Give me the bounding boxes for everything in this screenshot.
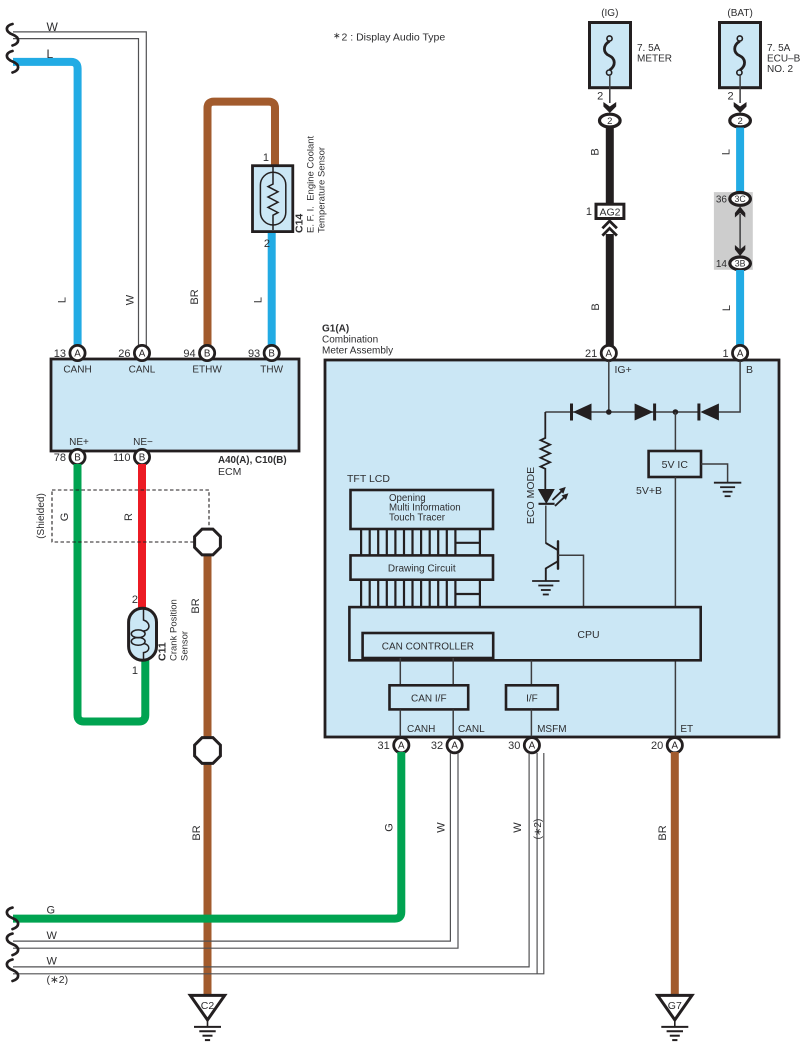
svg-text:78: 78 bbox=[54, 452, 66, 464]
svg-text:2: 2 bbox=[264, 238, 270, 250]
svg-text:ECO MODE: ECO MODE bbox=[525, 467, 537, 524]
svg-text:G: G bbox=[47, 905, 56, 917]
svg-text:A: A bbox=[451, 741, 458, 752]
svg-text:BR: BR bbox=[190, 598, 202, 613]
svg-text:E. F. I. Engine Coolant: E. F. I. Engine Coolant bbox=[306, 135, 317, 233]
svg-text:CAN CONTROLLER: CAN CONTROLLER bbox=[382, 642, 474, 653]
svg-text:110: 110 bbox=[113, 452, 131, 464]
svg-text:W: W bbox=[512, 822, 524, 833]
svg-text:3C: 3C bbox=[734, 194, 746, 204]
svg-text:G7: G7 bbox=[668, 1000, 682, 1012]
svg-text:(∗2): (∗2) bbox=[533, 819, 544, 840]
svg-text:BR: BR bbox=[191, 825, 203, 840]
svg-text:5V IC: 5V IC bbox=[662, 459, 689, 471]
svg-text:30: 30 bbox=[508, 740, 520, 752]
svg-text:Meter Assembly: Meter Assembly bbox=[322, 346, 393, 357]
svg-text:I/F: I/F bbox=[526, 694, 538, 705]
svg-text:Crank Position: Crank Position bbox=[169, 599, 180, 661]
svg-text:(∗2): (∗2) bbox=[47, 974, 69, 986]
svg-text:G1(A): G1(A) bbox=[322, 324, 349, 335]
svg-text:A: A bbox=[737, 349, 744, 360]
svg-text:TFT LCD: TFT LCD bbox=[347, 473, 390, 485]
svg-text:A: A bbox=[529, 741, 536, 752]
svg-text:A: A bbox=[139, 349, 146, 360]
svg-text:G: G bbox=[384, 823, 396, 832]
svg-text:Combination: Combination bbox=[322, 335, 378, 346]
svg-text:2: 2 bbox=[607, 116, 612, 127]
svg-text:A: A bbox=[398, 741, 405, 752]
svg-text:(Shielded): (Shielded) bbox=[36, 493, 47, 539]
svg-text:1: 1 bbox=[586, 206, 592, 218]
svg-text:A: A bbox=[606, 349, 613, 360]
svg-text:L: L bbox=[721, 149, 733, 155]
svg-text:C2: C2 bbox=[201, 1000, 215, 1012]
svg-text:CAN I/F: CAN I/F bbox=[411, 694, 447, 705]
svg-text:(BAT): (BAT) bbox=[727, 8, 752, 19]
svg-text:B: B bbox=[74, 453, 81, 464]
svg-text:36: 36 bbox=[716, 195, 728, 206]
svg-text:(IG): (IG) bbox=[601, 8, 618, 19]
svg-text:1: 1 bbox=[132, 665, 138, 677]
svg-text:AG2: AG2 bbox=[599, 207, 620, 219]
svg-text:CANL: CANL bbox=[129, 365, 156, 376]
svg-text:C14: C14 bbox=[294, 214, 306, 233]
svg-text:L: L bbox=[721, 305, 733, 311]
svg-text:2: 2 bbox=[737, 116, 742, 127]
svg-text:7. 5A: 7. 5A bbox=[767, 43, 791, 54]
svg-text:1: 1 bbox=[263, 152, 269, 164]
svg-text:L: L bbox=[57, 297, 69, 303]
svg-text:B: B bbox=[268, 349, 275, 360]
svg-text:G: G bbox=[59, 513, 71, 522]
svg-text:2: 2 bbox=[597, 91, 603, 103]
svg-text:B: B bbox=[139, 453, 146, 464]
svg-text:A: A bbox=[74, 349, 81, 360]
svg-text:∗: ∗ bbox=[333, 31, 341, 41]
svg-text:METER: METER bbox=[637, 53, 672, 64]
svg-text:B: B bbox=[590, 303, 602, 310]
svg-text:ECU–B: ECU–B bbox=[767, 53, 801, 64]
svg-text:2: 2 bbox=[132, 594, 138, 606]
svg-text:IG+: IG+ bbox=[615, 364, 632, 376]
svg-text:A: A bbox=[672, 741, 679, 752]
svg-text:W: W bbox=[125, 294, 137, 305]
svg-text:21: 21 bbox=[585, 348, 597, 360]
svg-text:7. 5A: 7. 5A bbox=[637, 43, 661, 54]
svg-text:W: W bbox=[47, 930, 58, 942]
svg-text:W: W bbox=[47, 956, 58, 968]
svg-text:W: W bbox=[435, 822, 447, 833]
svg-text:ECM: ECM bbox=[218, 466, 241, 478]
svg-text:94: 94 bbox=[183, 348, 195, 360]
svg-text:5V+B: 5V+B bbox=[636, 485, 662, 497]
svg-text:31: 31 bbox=[378, 740, 390, 752]
svg-text:L: L bbox=[253, 297, 265, 303]
svg-text:NE+: NE+ bbox=[69, 437, 89, 448]
svg-text:A40(A), C10(B): A40(A), C10(B) bbox=[218, 455, 287, 466]
svg-text:93: 93 bbox=[248, 348, 260, 360]
svg-text:MSFM: MSFM bbox=[537, 724, 566, 735]
svg-text:14: 14 bbox=[716, 259, 728, 270]
svg-text:Drawing Circuit: Drawing Circuit bbox=[388, 564, 456, 575]
svg-text:Sensor: Sensor bbox=[180, 631, 191, 661]
svg-text:ETHW: ETHW bbox=[192, 365, 222, 376]
svg-text:Touch Tracer: Touch Tracer bbox=[389, 512, 446, 523]
svg-text:2 : Display Audio Type: 2 : Display Audio Type bbox=[342, 32, 446, 44]
svg-text:Temperature Sensor: Temperature Sensor bbox=[317, 147, 328, 233]
svg-text:13: 13 bbox=[54, 348, 66, 360]
svg-text:20: 20 bbox=[651, 740, 663, 752]
svg-text:W: W bbox=[47, 20, 59, 34]
svg-text:1: 1 bbox=[722, 348, 728, 360]
svg-text:B: B bbox=[590, 148, 602, 155]
svg-text:C11: C11 bbox=[157, 642, 169, 661]
svg-text:32: 32 bbox=[431, 740, 443, 752]
svg-text:NO. 2: NO. 2 bbox=[767, 64, 794, 75]
svg-text:THW: THW bbox=[260, 365, 283, 376]
svg-text:BR: BR bbox=[189, 289, 201, 304]
svg-text:R: R bbox=[123, 513, 135, 521]
svg-text:26: 26 bbox=[118, 348, 130, 360]
svg-text:ET: ET bbox=[680, 724, 693, 735]
svg-text:L: L bbox=[47, 47, 54, 61]
svg-text:2: 2 bbox=[727, 91, 733, 103]
svg-text:3B: 3B bbox=[735, 259, 746, 269]
svg-text:B: B bbox=[204, 349, 211, 360]
svg-text:CANH: CANH bbox=[407, 724, 435, 735]
svg-text:NE−: NE− bbox=[133, 437, 153, 448]
svg-text:CPU: CPU bbox=[577, 629, 599, 641]
svg-text:BR: BR bbox=[657, 825, 669, 840]
svg-text:B: B bbox=[746, 364, 753, 376]
svg-text:CANH: CANH bbox=[63, 365, 91, 376]
svg-text:CANL: CANL bbox=[458, 724, 485, 735]
